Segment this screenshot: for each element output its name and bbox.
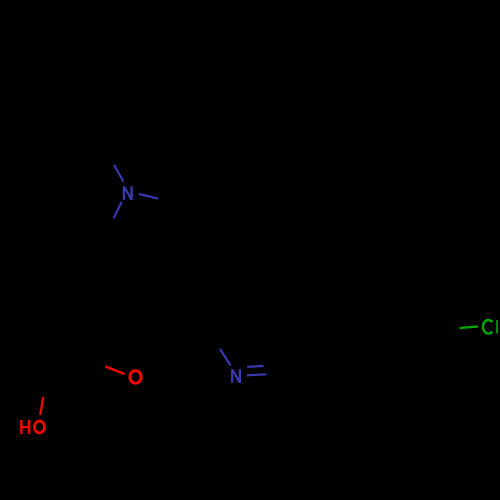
bond Cl-C (half-bond stub to left)	[460, 327, 479, 329]
bond N2 single (half-bond stub up-left)	[220, 349, 231, 366]
bond N2=C double bond outer line	[247, 374, 267, 375]
bond N1-CH3 (half-bond stub up-left)	[114, 165, 124, 182]
bond N1-C5 (half-bond stub down-left)	[114, 202, 122, 219]
bond N2=C double bond inner line	[247, 366, 263, 367]
atom HO (hydroxyl label)	[20, 420, 30, 434]
atom N2 (pyridine nitrogen)	[231, 369, 241, 383]
bond O-C (half-bond stub up-left)	[106, 367, 125, 375]
bond HO-C (half-bond stub up)	[40, 397, 43, 415]
atom N1 (pyrrolidine nitrogen)	[123, 186, 133, 200]
atom O (ether oxygen)	[130, 371, 141, 384]
atom Cl (chlorine label)	[483, 320, 492, 334]
bond N1-C2 (half-bond stub to right)	[139, 194, 158, 199]
